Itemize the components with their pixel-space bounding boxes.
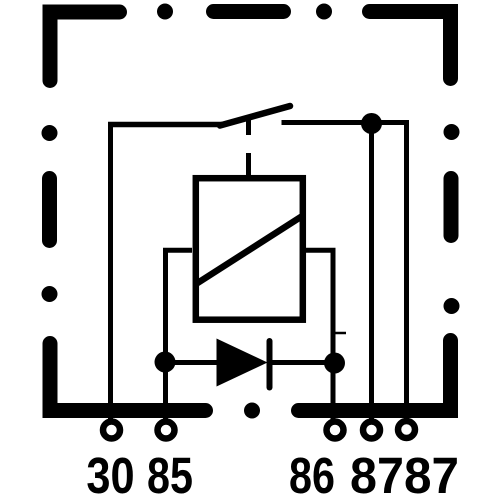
pin terminal 85 bbox=[158, 422, 175, 439]
svg-text:30: 30 bbox=[86, 448, 134, 500]
diode V1 anode wire bbox=[165, 360, 217, 365]
mechanical link dash to coil bbox=[246, 153, 251, 176]
relay housing dashed outline bbox=[42, 4, 460, 419]
svg-text:86: 86 bbox=[289, 447, 335, 500]
wire switch output to 87 pins bbox=[282, 123, 407, 425]
wire to first pin 87 bbox=[369, 124, 374, 425]
pin terminal 87 second bbox=[398, 421, 415, 438]
wire switch fixed contact (from pin 30) bbox=[108, 122, 222, 128]
wire coil right terminal to pin 86 bbox=[306, 250, 333, 424]
diode V1 cathode bar bbox=[267, 341, 273, 388]
junction node dot 85 side bbox=[155, 352, 176, 373]
wire coil left terminal to pin 85 bbox=[166, 250, 193, 424]
switch blade contact arm bbox=[220, 106, 290, 126]
pin terminal 86 bbox=[327, 422, 344, 439]
pin terminal 30 bbox=[103, 422, 120, 439]
diode V1 triangle bbox=[217, 339, 268, 387]
relay coil K1 body bbox=[196, 178, 303, 320]
diode V1 cathode wire bbox=[270, 360, 335, 365]
svg-text:85: 85 bbox=[147, 447, 193, 500]
small tick on 86 wire bbox=[335, 332, 346, 335]
junction node dot 86 side bbox=[324, 353, 345, 374]
svg-text:87: 87 bbox=[350, 447, 404, 500]
switch pivot tick bbox=[246, 117, 251, 135]
relay coil diagonal stroke bbox=[196, 217, 302, 285]
wire pin 30 vertical bbox=[108, 125, 113, 425]
pin terminal 87 first bbox=[363, 422, 380, 439]
junction node dot at switch output bbox=[361, 113, 382, 134]
svg-text:87: 87 bbox=[404, 447, 459, 500]
